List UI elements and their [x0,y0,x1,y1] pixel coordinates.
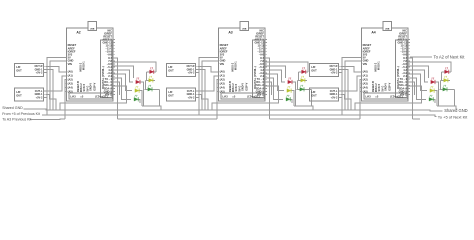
wire +5V net kit3 [342,58,362,115]
wire GND net kit1 [50,61,67,110]
bottom header bank arduino A4 [364,93,408,99]
wire gnd bus drop kit3 [455,106,457,110]
audio input module 3.1 [310,63,339,76]
svg-text:(A5): (A5) [68,89,73,93]
wire chain bus to A2 kit2 [217,80,219,119]
wire module2 GND drop kit1 [46,94,56,110]
svg-text:≡5: ≡5 [232,96,235,99]
bottom header bank arduino A2 [69,93,113,99]
wire +5V net kit2 [199,58,219,115]
wire module2 GND drop kit3 [341,94,351,110]
svg-text:Shared GND: Shared GND [444,108,467,113]
svg-text:USB: USB [90,29,95,31]
svg-text:(A1): (A1) [363,74,368,78]
LED yellow right kit3 [444,76,448,82]
wire module2 OUT to A1 kit2 [198,76,219,91]
net analog chain kit3 stub [413,118,421,120]
svg-text:(A5): (A5) [220,89,225,93]
LED red left kit3 [431,78,435,84]
svg-text:A2: A2 [76,30,80,34]
svg-text:OUT: OUT [311,94,317,98]
svg-text:OUT: OUT [311,69,317,73]
wire left LED cathodes kit2 [292,82,295,106]
LED red left kit1 [136,78,140,84]
svg-text:+5V·2: +5V·2 [188,96,195,99]
svg-text:OUT: OUT [16,69,22,73]
wire right chain to gnd kit3 [437,89,455,106]
svg-text:A3: A3 [228,30,232,34]
svg-text:(A3): (A3) [68,82,73,86]
svg-text:Shared GND: Shared GND [2,106,23,110]
wire right LED chain links kit1 [147,71,156,73]
svg-text:L/R: L/R [168,65,172,69]
svg-text:ICSP·V: ICSP·V [94,82,97,91]
svg-text:ICSP·V: ICSP·V [246,82,249,91]
svg-text:To +5 of Next Kit: To +5 of Next Kit [438,114,468,119]
wire D8 to LED chain right kit3 [408,62,451,72]
digital header bank arduino A3 [253,40,265,98]
net Shared GND bus [24,109,443,111]
svg-text:L/A3: L/A3 [70,96,76,99]
svg-text:OUT: OUT [168,69,174,73]
audio input module 2.1 [167,63,196,76]
wire D8 to LED chain right kit2 [265,62,308,72]
LED yellow right kit2 [301,76,305,82]
svg-text:DIGITAL (PWM~): DIGITAL (PWM~) [396,66,400,89]
svg-text:(A3): (A3) [363,82,368,86]
svg-text:(CD+=(SCL: (CD+=(SCL [95,96,109,99]
svg-text:L/R: L/R [168,90,172,94]
LED yellow left kit3 [430,86,434,92]
LED yellow left kit1 [135,86,139,92]
svg-text:From +5 of Previous Kit: From +5 of Previous Kit [2,112,40,116]
wire spare feeds kit1 [113,66,134,78]
svg-text:(CD+=(SCL: (CD+=(SCL [390,96,404,99]
svg-text:L/R: L/R [311,65,315,69]
wire chain bus to A2 kit3 [360,80,362,119]
wire D5 to left green LED kit2 [265,78,283,100]
svg-text:VIN: VIN [68,62,72,66]
wire D6 to left yellow LED kit2 [265,74,284,91]
bottom header bank arduino A3 [221,93,265,99]
wire D5 to left green LED kit1 [113,78,131,100]
LED red right kit2 [302,68,306,74]
wire chain out riser kit2 [265,58,270,119]
svg-text:(A4): (A4) [68,86,73,90]
wire gnd return below arduino kit2 [212,86,279,110]
wire gnd bus drop kit1 [160,106,162,110]
digital header bank arduino A4 [396,40,408,98]
LED green left kit2 [286,95,290,101]
LED yellow right kit1 [149,76,153,82]
digital header bank arduino A2 [101,40,113,98]
audio input module 3.2 [310,88,339,101]
wire module2 GND drop kit2 [198,94,208,110]
wire gnd return below arduino kit1 [60,86,127,110]
svg-text:GND·V: GND·V [241,83,244,91]
net analog chain kit2 to kit3 [270,118,361,120]
wire module1 GND drop kit1 [46,69,53,110]
svg-text:To A2 of Next Kit: To A2 of Next Kit [434,55,466,60]
svg-text:USB: USB [385,29,390,31]
audio input module 1.2 [15,88,44,101]
svg-text:ICSP·V: ICSP·V [389,82,392,91]
svg-text:MOSI·1: MOSI·1 [83,61,86,70]
arduino A4 USB connector [383,22,392,31]
wire module2 OUT to A1 kit1 [46,76,67,91]
wire D6 to left yellow LED kit3 [408,74,427,91]
audio input module 1.1 [15,63,44,76]
wire D8 to LED chain right kit1 [113,62,156,72]
wire right LED chain links kit2 [299,71,308,73]
wire left LED cathodes kit3 [435,82,438,106]
wire kit3 chain out to label [410,56,432,58]
wire GND net kit2 [202,61,219,110]
wire module1 OUT to A0 kit2 [198,66,219,72]
wire module1 OUT to A0 kit1 [46,66,67,72]
svg-text:+5V·2: +5V·2 [331,72,338,75]
svg-text:(A3): (A3) [220,82,225,86]
wire left LED cathodes kit1 [140,82,143,106]
svg-text:+5V·2: +5V·2 [36,72,43,75]
svg-text:(A5): (A5) [363,89,368,93]
svg-text:VIN: VIN [363,62,367,66]
svg-text:VIN: VIN [220,62,224,66]
svg-text:(CD+=(SCL: (CD+=(SCL [247,96,261,99]
LED green right kit1 [148,85,152,91]
svg-text:(A1): (A1) [220,74,225,78]
svg-text:GND·V: GND·V [384,83,387,91]
svg-text:MOSI·1: MOSI·1 [378,61,381,70]
arduino A4 body [362,28,408,101]
svg-text:(A1): (A1) [68,74,73,78]
svg-text:(A4): (A4) [220,86,225,90]
wire gnd return below arduino kit3 [355,86,422,110]
net analog chain from previous kit [30,118,65,121]
arduino A3 body [219,28,265,101]
LED green left kit3 [429,95,433,101]
svg-text:(A0): (A0) [220,70,225,74]
net analog chain kit1 to kit2 [118,118,218,120]
wire D6 to left yellow LED kit1 [113,74,132,91]
wire chain out riser kit1 [113,58,118,119]
svg-text:(A4): (A4) [363,86,368,90]
wire module1 GND drop kit3 [341,69,348,110]
svg-text:A4: A4 [371,30,375,34]
wire D7 to left red LED kit3 [408,70,428,82]
svg-text:+5V·2: +5V·2 [36,96,43,99]
svg-text:≡5: ≡5 [375,96,378,99]
wire chain bus to A2 kit1 [65,80,67,119]
LED green left kit1 [134,95,138,101]
svg-text:OUT: OUT [168,94,174,98]
svg-text:(A0): (A0) [363,70,368,74]
LED green right kit2 [300,85,304,91]
arduino A3 USB connector [240,22,249,31]
LED red right kit1 [150,68,154,74]
audio input module 2.2 [167,88,196,101]
svg-text:USB: USB [242,29,247,31]
net +5V bus [42,115,437,117]
svg-text:DIGITAL (PWM~): DIGITAL (PWM~) [253,66,257,89]
LED red left kit2 [288,78,292,84]
wire spare feeds kit2 [265,66,286,78]
svg-text:(A2): (A2) [363,78,368,82]
wire D5 to left green LED kit3 [408,78,426,100]
wire spare feeds kit3 [408,66,429,78]
svg-text:L/A3: L/A3 [222,96,228,99]
arduino A2 USB connector [88,22,97,31]
svg-text:MOSI·1: MOSI·1 [235,61,238,70]
wire module1 OUT to A0 kit3 [341,66,362,72]
wire GND net kit3 [345,61,362,110]
svg-text:+5V·2: +5V·2 [331,96,338,99]
svg-text:GND·V: GND·V [89,83,92,91]
svg-text:+5V·2: +5V·2 [188,72,195,75]
svg-text:OUT: OUT [16,94,22,98]
wire right chain to gnd kit2 [294,89,312,106]
svg-text:≡5: ≡5 [80,96,83,99]
svg-text:To A3 Previous Kit: To A3 Previous Kit [2,117,31,121]
LED green right kit3 [443,85,447,91]
arduino A2 body [67,28,113,101]
wire D7 to left red LED kit2 [265,70,285,82]
svg-text:DIGITAL (PWM~): DIGITAL (PWM~) [101,66,105,89]
svg-text:(A2): (A2) [68,78,73,82]
wire right LED chain links kit3 [442,71,451,73]
wire D7 to left red LED kit1 [113,70,133,82]
wire module1 GND drop kit2 [198,69,205,110]
wire chain out riser kit3 [408,58,413,119]
svg-text:L/A3: L/A3 [365,96,371,99]
svg-text:L/R: L/R [16,65,20,69]
svg-text:(A2): (A2) [220,78,225,82]
wire +5V net kit1 [47,58,67,115]
svg-text:L/R: L/R [311,90,315,94]
wire right chain to gnd kit1 [142,89,160,106]
svg-text:(A0): (A0) [68,70,73,74]
wire gnd bus drop kit2 [312,106,314,110]
wire module2 OUT to A1 kit3 [341,76,362,91]
LED yellow left kit2 [287,86,291,92]
LED red right kit3 [445,68,449,74]
svg-text:L/R: L/R [16,90,20,94]
